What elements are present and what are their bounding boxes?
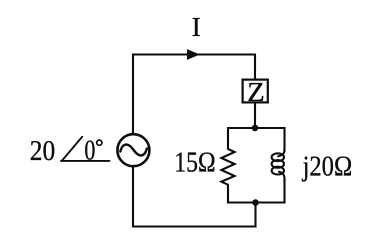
svg-text:20: 20: [30, 135, 55, 167]
svg-text:I: I: [192, 12, 201, 42]
svg-text:15Ω: 15Ω: [174, 147, 215, 179]
svg-text:j20Ω: j20Ω: [302, 151, 352, 183]
svg-text:0: 0: [84, 135, 95, 167]
svg-text:Z: Z: [247, 76, 264, 107]
